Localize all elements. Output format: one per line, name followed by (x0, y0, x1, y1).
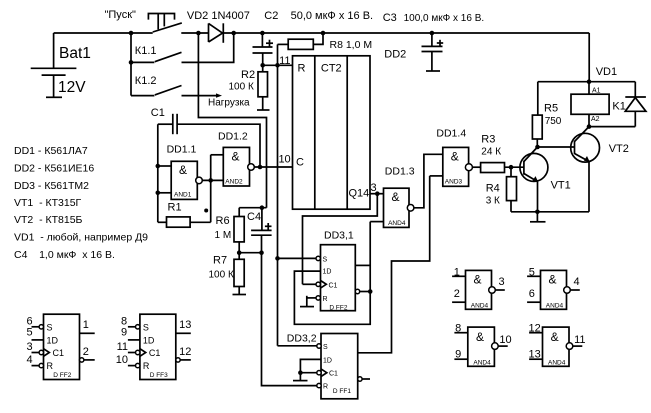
parts list text (14, 145, 148, 261)
svg-text:DD3 - К561ТМ2: DD3 - К561ТМ2 (14, 180, 89, 192)
pinout flip-flop D FF2 (27, 314, 95, 379)
capacitor C4 (247, 208, 272, 253)
node: pin 11 net (power-on reset) (260, 55, 292, 68)
svg-text:C4 1,0 мкФ x 16 В.: C4 1,0 мкФ x 16 В. (14, 249, 115, 261)
relay coil K1 (571, 82, 626, 127)
svg-text:3: 3 (499, 276, 505, 288)
resistor R7 (209, 253, 247, 295)
svg-text:&: & (474, 272, 482, 286)
svg-text:DD1.1: DD1.1 (167, 144, 197, 156)
resistor R5 (532, 82, 561, 147)
svg-text:&: & (451, 149, 459, 163)
svg-text:R4: R4 (486, 183, 500, 195)
resistor R2 (229, 65, 270, 110)
svg-text:S: S (47, 323, 53, 333)
node: rail junction dots (129, 31, 134, 36)
svg-text:A1: A1 (592, 88, 601, 95)
svg-text:2: 2 (454, 288, 460, 300)
svg-text:100 К: 100 К (229, 82, 254, 93)
svg-text:8: 8 (455, 322, 461, 334)
svg-text:DD2: DD2 (384, 49, 406, 61)
svg-text:C1: C1 (149, 348, 161, 358)
svg-text:1: 1 (83, 319, 89, 331)
svg-text:1D: 1D (143, 336, 155, 346)
svg-text:К1.2: К1.2 (135, 75, 157, 87)
svg-text:9: 9 (121, 327, 127, 339)
svg-text:DD2 - К561ИЕ16: DD2 - К561ИЕ16 (14, 163, 94, 175)
svg-text:24 К: 24 К (481, 147, 501, 158)
relay contact K1.2 (131, 33, 182, 96)
svg-text:VT1: VT1 (551, 180, 571, 192)
pinout gate 5-6-4 (527, 267, 580, 310)
svg-text:1D: 1D (323, 357, 332, 364)
svg-text:10: 10 (499, 334, 511, 346)
wire: +12V top rail left (54, 32, 153, 34)
resistor R1 (158, 202, 211, 228)
pushbutton "Пуск" (105, 9, 182, 32)
svg-text:VD1: VD1 (596, 66, 617, 78)
svg-text:D FF2: D FF2 (53, 372, 71, 379)
svg-text:DD1.3: DD1.3 (385, 166, 415, 178)
svg-text:DD3,2: DD3,2 (287, 333, 317, 345)
svg-text:R5: R5 (544, 103, 558, 115)
svg-text:R: R (323, 296, 328, 303)
svg-text:AND4: AND4 (546, 303, 564, 310)
transistor VT1 (520, 147, 571, 212)
ground (530, 212, 546, 222)
svg-text:5: 5 (529, 267, 535, 279)
svg-text:R2: R2 (241, 69, 255, 81)
svg-text:S: S (323, 256, 328, 263)
svg-text:3: 3 (370, 182, 376, 194)
svg-text:&: & (551, 330, 559, 344)
svg-text:&: & (549, 272, 557, 286)
svg-text:12: 12 (179, 346, 191, 358)
node: stray dot (204, 209, 208, 213)
svg-text:AND4: AND4 (471, 303, 489, 310)
svg-text:S: S (323, 344, 328, 351)
svg-text:R3: R3 (481, 134, 495, 146)
svg-text:AND1: AND1 (174, 191, 192, 198)
svg-text:K1: K1 (612, 101, 625, 113)
wire: switched +12V down to RC network (198, 33, 266, 208)
svg-text:Q14: Q14 (349, 187, 370, 199)
svg-text:S: S (143, 323, 149, 333)
wire: DD1.1 output node (202, 155, 223, 223)
svg-text:К1.1: К1.1 (135, 45, 157, 57)
svg-text:1: 1 (454, 267, 460, 279)
svg-text:R: R (143, 361, 150, 371)
svg-text:C1: C1 (151, 107, 165, 119)
svg-text:2: 2 (83, 346, 89, 358)
svg-text:AND4: AND4 (548, 360, 566, 367)
flip-flop DD3.2 (287, 333, 362, 399)
capacitor C2 (253, 10, 374, 65)
resistor R6 (215, 208, 245, 253)
pinout flip-flop D FF3 (116, 314, 192, 379)
svg-text:DD3,1: DD3,1 (324, 230, 354, 242)
wire: rail corner down to relay node (588, 33, 590, 82)
wire: DD1.3 output to DD1.4 input 1 (414, 154, 443, 208)
svg-text:9: 9 (455, 349, 461, 361)
resistor R4 (486, 167, 517, 212)
svg-text:R: R (47, 361, 54, 371)
ground at DD3.1 R (300, 296, 316, 307)
svg-text:1D: 1D (323, 269, 332, 276)
svg-text:A2: A2 (591, 116, 600, 123)
svg-text:R8 1,0 M: R8 1,0 M (330, 39, 373, 51)
svg-text:D FF1: D FF1 (333, 388, 351, 395)
pinout gate 8-9-10 (454, 322, 511, 366)
ground at DD3.2 C1 (293, 373, 308, 381)
node: RC top node (239, 205, 266, 210)
svg-text:&: & (392, 190, 400, 204)
wire: DD1.3 input 2 (370, 221, 383, 223)
svg-text:AND2: AND2 (225, 179, 243, 186)
counter DD2 CT2 (278, 49, 406, 210)
battery Bat1 12V (31, 33, 91, 97)
svg-text:R1: R1 (168, 202, 182, 214)
svg-text:4: 4 (574, 276, 580, 288)
wire: DD3.1 C1 input (303, 283, 317, 285)
svg-text:1 М: 1 М (215, 230, 232, 241)
gate DD1.1 (156, 124, 203, 222)
load arrow Нагрузка (182, 93, 251, 108)
svg-text:&: & (476, 330, 484, 344)
node: relay A1 node (538, 81, 636, 83)
svg-text:D FF3: D FF3 (150, 372, 168, 379)
svg-text:750: 750 (545, 116, 562, 127)
transistor VT2 (571, 127, 629, 212)
wire: DD3.1 Qbar stub (360, 291, 371, 293)
svg-text:VT2: VT2 (609, 143, 629, 155)
wire: VT1 collector node to VT2 base (538, 146, 575, 148)
pinout gate 1-2-3 (452, 267, 505, 310)
capacitor C1 (151, 107, 260, 167)
gate DD1.4 (436, 128, 472, 187)
svg-text:13: 13 (529, 349, 541, 361)
svg-text:R: R (323, 384, 328, 391)
svg-text:VT2 - КТ815Б: VT2 - КТ815Б (14, 214, 83, 226)
wire: Q14 to DD3.1 C1 (303, 194, 378, 285)
gate DD1.2 (218, 131, 254, 187)
svg-text:C4: C4 (247, 211, 261, 223)
wire: DD3.1 S input (278, 257, 317, 259)
svg-text:VD2 1N4007: VD2 1N4007 (187, 10, 250, 22)
svg-text:Bat1: Bat1 (59, 45, 91, 62)
node: Q14 pin 3 output (370, 182, 384, 196)
svg-text:R7: R7 (213, 255, 227, 267)
resistor R3 (472, 134, 524, 173)
svg-text:12V: 12V (58, 79, 86, 96)
svg-text:50,0 мкФ x 16 В.: 50,0 мкФ x 16 В. (291, 10, 374, 22)
pinout gate 12-13-11 (529, 322, 586, 366)
svg-text:DD1 - К561ЛА7: DD1 - К561ЛА7 (14, 145, 88, 157)
svg-text:C1: C1 (53, 348, 65, 358)
svg-text:C2: C2 (264, 10, 278, 22)
svg-text:11: 11 (574, 334, 585, 346)
svg-text:11: 11 (117, 341, 128, 353)
svg-text:DD1.4: DD1.4 (436, 128, 466, 140)
svg-text:&: & (179, 163, 187, 177)
wire: reset vertical bus to DD3 (277, 44, 279, 345)
svg-text:3 К: 3 К (486, 196, 500, 207)
wire: top rail switch to VD2 (181, 32, 208, 34)
diode VD2 1N4007 (187, 10, 250, 43)
svg-text:C: C (296, 157, 304, 169)
svg-text:3: 3 (27, 341, 33, 353)
svg-text:C1: C1 (329, 282, 338, 289)
wire: DD3.2 Q output to DD1.4 input (358, 176, 430, 353)
resistor R8 (278, 33, 373, 51)
svg-text:VT1 - КТ315Г: VT1 - КТ315Г (14, 197, 82, 209)
svg-text:11: 11 (279, 55, 290, 67)
svg-text:C3: C3 (383, 12, 397, 24)
svg-text:10: 10 (278, 154, 290, 166)
svg-text:CT2: CT2 (321, 63, 342, 75)
capacitor C3 (383, 12, 484, 71)
wire: DD3.1 Q output (355, 264, 370, 266)
svg-text:R6: R6 (216, 215, 230, 227)
svg-text:10: 10 (116, 354, 128, 366)
wire: divider node to DD3.2 R (262, 253, 317, 386)
wire: DD3.2 1D to C1 tie (300, 359, 321, 372)
svg-text:D FF2: D FF2 (329, 304, 347, 311)
wire: DD1.2 output to counter C pin 10 (254, 165, 292, 170)
svg-text:R: R (298, 63, 306, 75)
gate DD1.3 (384, 166, 415, 228)
svg-text:1D: 1D (47, 336, 59, 346)
wire: DD1.4 input 2 stub (430, 175, 443, 177)
svg-text:AND4: AND4 (473, 360, 491, 367)
flip-flop DD3.1 (316, 230, 360, 312)
svg-text:C1: C1 (329, 371, 338, 378)
svg-text:VD1 - любой, например Д9: VD1 - любой, например Д9 (14, 232, 148, 244)
svg-text:AND3: AND3 (445, 179, 463, 186)
svg-text:13: 13 (179, 319, 191, 331)
svg-text:100 К: 100 К (209, 270, 234, 281)
wire: DD3.2 Qbar stub (362, 378, 370, 380)
svg-text:12: 12 (529, 322, 541, 334)
svg-text:100,0 мкФ x 16 В.: 100,0 мкФ x 16 В. (404, 13, 485, 24)
node: R6/R7/C4 divider node (237, 250, 264, 255)
svg-text:DD1.2: DD1.2 (218, 131, 248, 143)
svg-text:6: 6 (529, 288, 535, 300)
svg-text:"Пуск": "Пуск" (105, 9, 137, 21)
wire: DD3.1 1D feedback loop (294, 222, 370, 325)
svg-text:4: 4 (27, 354, 33, 366)
svg-text:5: 5 (27, 327, 33, 339)
diode VD1 (589, 82, 646, 127)
relay contact K1.1 (129, 33, 234, 65)
wire: emitter ground line (511, 211, 589, 213)
wire: top rail VD2 to relay corner (223, 32, 589, 34)
svg-text:&: & (232, 150, 240, 164)
svg-text:Нагрузка: Нагрузка (208, 98, 250, 109)
wire: DD3.2 S input from reset bus (278, 345, 317, 347)
svg-text:AND4: AND4 (388, 220, 406, 227)
